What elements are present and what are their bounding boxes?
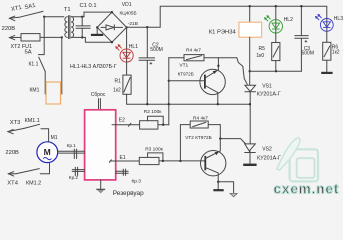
pipe sbros [99, 99, 101, 110]
wire VT2 collector to gate VS2 [220, 139, 245, 144]
node fuse-transformer junction [61, 36, 63, 38]
svg-text:VS1: VS1 [262, 83, 272, 89]
svg-text:R4 4к7: R4 4к7 [193, 116, 208, 122]
svg-text:КМ1.2: КМ1.2 [26, 181, 41, 187]
node R2 tap [162, 124, 164, 126]
node C3 top [300, 5, 302, 7]
tank drain stub [100, 180, 102, 189]
transformer T1 secondary winding [71, 17, 73, 38]
svg-text:1к0: 1к0 [256, 53, 264, 59]
svg-text:220В: 220В [5, 150, 19, 156]
node C1 top [81, 16, 83, 18]
svg-text:КТ972Б: КТ972Б [178, 71, 194, 76]
svg-text:Кр.3: Кр.3 [132, 178, 142, 184]
svg-text:М: М [44, 147, 51, 157]
terminal XT2 arrow [10, 35, 22, 39]
transistor VT2 [201, 151, 226, 176]
resistor R4b [180, 124, 190, 126]
svg-text:1к2: 1к2 [113, 87, 121, 93]
wire R6 bottom [326, 60, 328, 72]
svg-text:cxem.net: cxem.net [274, 182, 340, 197]
svg-text:VD1: VD1 [122, 2, 132, 8]
svg-text:500М: 500М [150, 47, 163, 53]
svg-text:HL1-HL3 АЛ307Б-Г: HL1-HL3 АЛ307Б-Г [70, 64, 117, 70]
wire HL1 to R1 [126, 62, 128, 75]
svg-text:R4 4к7: R4 4к7 [186, 47, 201, 53]
svg-text:HL2: HL2 [284, 17, 293, 23]
node K1 top [249, 5, 251, 7]
node mid rail right [249, 70, 251, 72]
svg-text:К1.1: К1.1 [29, 62, 39, 68]
VT1 emitter [205, 86, 218, 105]
node VT1 collector dot [217, 65, 219, 67]
R3 top tap bracket [148, 153, 163, 161]
svg-text:XT3: XT3 [10, 120, 21, 126]
svg-text:М1: М1 [51, 135, 58, 141]
svg-text:КЦ405Б: КЦ405Б [120, 10, 137, 15]
node VT2 collector junction [219, 137, 221, 139]
electrode E2 tick [128, 123, 131, 126]
wire R4a right to gate VS1 [204, 57, 237, 59]
contact KM1.2 blade [16, 169, 39, 174]
node bridge bottom [111, 41, 113, 43]
C2 plus mark [150, 62, 153, 65]
wire N to KM1 coil [61, 37, 63, 94]
svg-text:Е1: Е1 [120, 155, 126, 161]
contact K1.1 blade [39, 57, 45, 71]
wire 0V rail right [250, 70, 302, 72]
svg-text:5А: 5А [25, 50, 32, 56]
VT1 collector diagonal with arrow [205, 70, 218, 78]
motor tilde [43, 157, 51, 159]
resistor R5 [272, 43, 280, 61]
wire KM1.1 to motor [41, 129, 49, 142]
terminal XT4 arrow [8, 172, 16, 176]
valve Kr.2 pipe [72, 167, 84, 175]
svg-text:-21В: -21В [128, 21, 138, 27]
wire R3 right to VT2 base [159, 160, 205, 162]
capacitor C1 [76, 17, 90, 38]
terminal XT3 arrow [8, 128, 24, 133]
svg-text:Кр.1: Кр.1 [67, 143, 77, 148]
wire N through fuse [21, 36, 62, 38]
wire K1.1 to KM1 coil [44, 72, 46, 95]
wire R1 to mid rail [127, 94, 250, 104]
transistor VT1 [200, 69, 225, 94]
resistor R6 [323, 42, 331, 60]
relay K1 wire from rail [249, 6, 251, 22]
wire L top [44, 16, 64, 18]
C3 plus mark [305, 40, 308, 43]
VT2 emitter ground bar [213, 189, 223, 191]
wire secondary top [71, 12, 112, 17]
electrode E2 wire [112, 124, 140, 126]
LED HL1 wire from bridge [126, 27, 128, 49]
wire R4b right to VT2 collector [208, 125, 220, 139]
bridge inner diode [101, 25, 123, 30]
valve Kr.1 pipe [58, 149, 85, 158]
svg-text:КУ201А-Г: КУ201А-Г [257, 156, 281, 162]
resistor R1 [123, 75, 131, 94]
svg-text:К1 РЭН34: К1 РЭН34 [209, 30, 237, 36]
wire down to K1.1 [39, 17, 45, 55]
svg-text:HL1: HL1 [129, 44, 138, 50]
LED HL1 [126, 49, 128, 62]
LED HL3 [326, 19, 328, 32]
wire K1 to VS1 [249, 37, 251, 85]
svg-text:Е2: Е2 [119, 118, 125, 124]
R6 ground bar [321, 72, 332, 74]
node rail cross [168, 103, 170, 105]
resistor R2 [140, 121, 158, 129]
terminal XT1 arrow [10, 16, 20, 21]
resistor R3 [139, 157, 159, 164]
svg-text:VT1: VT1 [179, 63, 188, 69]
svg-text:Резервуар: Резервуар [113, 190, 144, 197]
VT1 base bar [204, 75, 206, 89]
wire R2 right [158, 124, 169, 126]
fuse FU1 [21, 34, 40, 41]
node C2 top [146, 26, 148, 28]
switch SA1 blade [19, 11, 43, 17]
node bridge left [96, 26, 98, 28]
VT1 collector vertical [217, 58, 219, 70]
VT2 base bar [204, 156, 206, 170]
svg-text:R1: R1 [115, 78, 122, 84]
valve Kr.3 pipe [116, 169, 129, 175]
LED HL2 wire [275, 6, 277, 19]
node R3 tap [162, 160, 164, 162]
svg-text:КМ1.1: КМ1.1 [25, 118, 40, 124]
svg-text:1к2: 1к2 [332, 49, 340, 55]
bridge rectifier VD1 diamond [97, 12, 126, 42]
svg-text:VS2: VS2 [262, 146, 272, 152]
wire secondary bottom [71, 37, 112, 42]
svg-text:Сброс: Сброс [91, 92, 106, 98]
svg-text:С1 0.1: С1 0.1 [80, 3, 97, 9]
VT1 base wire [169, 80, 205, 82]
node junction SA1 [43, 16, 45, 18]
svg-text:Кр.2: Кр.2 [69, 175, 79, 180]
node C1 bottom [81, 36, 83, 38]
node HL2 top [275, 5, 277, 7]
node VS column on rail [249, 103, 251, 105]
svg-text:HL3: HL3 [334, 16, 343, 22]
svg-text:500М: 500М [302, 50, 315, 56]
motor M1 [37, 142, 58, 163]
svg-text:XT4: XT4 [7, 181, 18, 187]
VT2 collector diagonal with arrow [205, 139, 220, 159]
R2 top tap bracket [148, 116, 164, 125]
wire HL3 to R6 [326, 31, 328, 42]
wire motor bottom to KM1.2 [40, 163, 49, 174]
svg-text:220В: 220В [2, 26, 16, 32]
svg-text:VT2 КТ972Б: VT2 КТ972Б [185, 135, 211, 140]
LED HL2 [275, 20, 277, 33]
wire -21V rail [127, 6, 327, 27]
node VT1 emitter on rail [217, 103, 219, 105]
wire to earth symbol [218, 182, 233, 194]
node R4b drop on base wire [179, 160, 181, 162]
ground stub under bridge left [96, 27, 98, 33]
vertical feedback wire VT1 column [168, 58, 170, 125]
capacitor C3 [295, 6, 308, 71]
svg-text:R2 100к: R2 100к [144, 109, 162, 115]
transformer T1 core [68, 16, 70, 39]
svg-text:R5: R5 [259, 46, 266, 52]
node R5 bottom [275, 70, 277, 72]
contact KM1.1 blade [24, 124, 40, 128]
node VT1 base junction [168, 80, 170, 82]
resistor R4a [169, 57, 184, 59]
svg-text:R3 100к: R3 100к [145, 146, 163, 152]
tank drain bar [96, 188, 105, 190]
thyristor VS1 [245, 85, 256, 144]
capacitor C2 [139, 27, 155, 104]
node C2 bottom on rail [146, 103, 148, 105]
node bridge top [111, 11, 113, 13]
wire R5 bottom [275, 61, 277, 72]
ground bar [91, 34, 103, 36]
node VT2 emitter junction [217, 181, 219, 183]
node bridge right -21V [125, 26, 127, 28]
electrode E1 tick [109, 160, 111, 163]
tank Rezervuar [85, 110, 116, 180]
tank drain triangle [98, 191, 103, 194]
thyristor VS2 [245, 144, 256, 164]
svg-text:КМ1: КМ1 [30, 88, 40, 94]
transformer T1 primary winding [65, 17, 67, 38]
gate VS1 zigzag [237, 58, 247, 85]
watermark cxem.net logo [277, 138, 318, 182]
electrode E1 wire [110, 160, 139, 162]
wire HL2 to R5 [275, 33, 277, 43]
VT2 emitter [205, 168, 218, 190]
svg-text:КУ201А-Г: КУ201А-Г [257, 91, 281, 97]
svg-text:Т1: Т1 [64, 7, 71, 13]
VS2 ground bar [243, 164, 256, 166]
relay K1 coil box [239, 22, 262, 37]
coil KM1 [46, 82, 61, 104]
earth symbol [230, 193, 237, 197]
